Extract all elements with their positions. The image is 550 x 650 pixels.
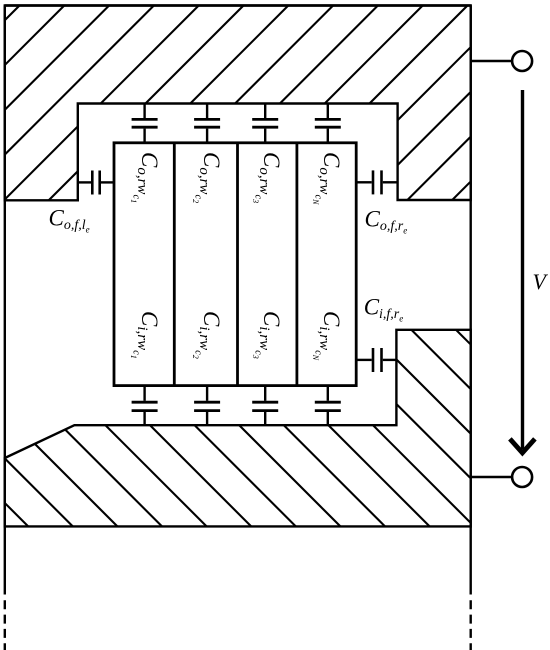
capacitor Ci,rw_c2 (bottom, column 2) — [194, 386, 220, 426]
winding divider 2 — [236, 143, 239, 386]
capacitor Ci,f,re (right inner fringe) — [356, 348, 396, 372]
top stator core outline — [5, 6, 471, 201]
dashed continuation left — [4, 600, 6, 650]
capacitor Co,rw_c3 (top, column 3) — [252, 104, 278, 143]
winding divider 3 — [295, 143, 298, 386]
voltage arrow head — [510, 439, 535, 453]
capacitor Co,rw_c2 (top, column 2) — [194, 104, 220, 143]
outer border top — [5, 4, 471, 6]
capacitor Ci,rw_c3 (bottom, column 3) — [252, 386, 278, 426]
capacitor Co,rw_c1 (top, column 1) — [132, 104, 158, 143]
outer border right — [470, 6, 472, 595]
top terminal circle — [512, 51, 532, 71]
dashed continuation right — [470, 600, 472, 650]
wire to top terminal — [471, 60, 512, 62]
capacitor Co,f,re (right outer fringe) — [356, 170, 397, 194]
wire to bottom terminal — [471, 476, 512, 478]
capacitor Ci,rw_cN (bottom, column 4) — [315, 386, 341, 426]
bottom stator core outline — [5, 330, 471, 527]
capacitor Co,f,le (left fringe) — [78, 171, 114, 195]
winding divider 1 — [173, 143, 176, 386]
outer border left — [4, 6, 6, 595]
bottom terminal circle — [512, 467, 532, 487]
capacitor Ci,rw_c1 (bottom, column 1) — [132, 386, 158, 426]
capacitor Co,rw_cN (top, column 4) — [315, 104, 341, 143]
voltage arrow V shaft — [521, 90, 524, 449]
winding block outline — [114, 143, 356, 386]
